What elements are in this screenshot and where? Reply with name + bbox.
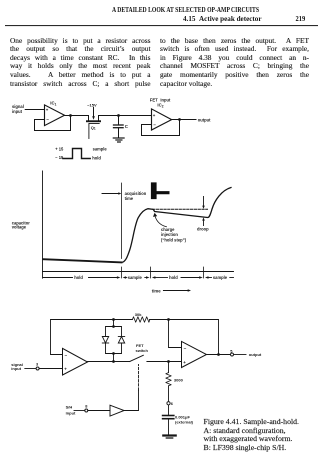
svg-text:+: + [46,107,49,112]
node: signal input label (bottom circuit) [11,362,23,371]
wire dashed gate control line [138,365,140,391]
svg-text:input: input [11,366,21,371]
svg-text:30k: 30k [135,312,142,317]
node junction 30k to A2 minus tap [167,318,170,321]
charge injection curved arrow [155,217,166,227]
svg-text:3000: 3000 [174,377,184,382]
capacitor 0.001uF external [163,415,174,417]
dimension line segments hold/sample/hold/sample [43,277,234,279]
node: capacitor voltage axis label [12,220,31,229]
svg-text:hold: hold [74,275,83,280]
svg-text:−15V: −15V [87,102,97,107]
svg-text:(“hold step”): (“hold step”) [161,238,187,243]
capacitor voltage waveform: baseline [43,259,122,262]
svg-text:switch: switch [136,348,149,353]
node: signal input label (top circuit) [12,104,24,114]
svg-text:output: output [198,117,211,122]
wire A2 output [207,354,231,356]
svg-text:S/H: S/H [66,405,73,410]
time axis line [43,271,234,273]
wire feedback rail (A2 out, over the top, to A1 minus) [150,320,219,355]
wire IC2 output [172,119,196,121]
terminal hold capacitor pin [167,402,170,405]
wire IC2 feedback loop [142,120,180,136]
svg-text:injection: injection [161,232,178,237]
interval tick marks [121,267,123,278]
svg-text:+: + [183,360,186,365]
wire A1 output [88,361,130,363]
ground below C [113,137,124,139]
node: hold/sample interval labels [74,275,227,280]
op-amp A2 [182,341,207,367]
svg-text:3: 3 [36,361,39,366]
svg-text:−: − [184,346,187,351]
terminal signal input [36,367,39,370]
acquisition-time boundary line [121,183,123,259]
svg-text:time: time [125,196,134,201]
left text column [10,37,151,88]
svg-text:output: output [249,352,262,357]
waveform y-axis [42,171,44,278]
node junction diode bottom to A1 output [112,360,115,363]
node junction IC1 output [69,114,72,117]
transistor Q1 (n-channel MOSFET switch) [88,116,90,121]
svg-text:IC1: IC1 [50,101,56,107]
op-amp IC2 (FET input) [150,97,171,108]
terminal S/H input [85,409,88,412]
wire signal input to IC1 + [25,109,44,111]
svg-text:input: input [12,109,23,114]
FET switch (switch arm) [130,355,144,361]
svg-text:hold: hold [169,275,178,280]
op-amp IC1 [45,105,65,126]
node: S/H input label [66,405,76,416]
wire S/H input to driver [74,410,85,412]
wire terminal to capacitor [168,405,170,415]
buffer U3 (switch driver) [110,405,124,416]
bold sample pulse glyph [151,182,170,199]
wire -15V to Q1 substrate with arrowhead [93,107,95,116]
capacitor voltage waveform: acquisition rise, hold step, droop, re-acquire [122,188,232,263]
node: acquisition time label [125,191,147,201]
resistor 30k [132,317,149,322]
wire to output label [234,354,247,356]
wire signal input [25,368,36,370]
svg-text:droop: droop [197,227,209,232]
wire hold node down to resistor [168,362,170,373]
wire IC1 feedback loop [35,116,71,131]
svg-text:6: 6 [171,401,174,406]
ground (bottom circuit) [163,434,175,436]
node junction hold-cap node [167,360,170,363]
svg-text:−: − [65,353,68,358]
svg-text:+ 15: + 15 [55,146,64,151]
wire diode branch stem bottom [113,354,115,362]
wire resistor to pin6 terminal [168,386,170,402]
resistor 3000 [166,373,171,386]
svg-text:input: input [66,410,76,415]
svg-text:sample: sample [213,275,228,280]
svg-text:sample: sample [93,147,108,152]
wire switch to A2 plus [147,361,182,363]
acquisition-time arrow [102,193,119,195]
svg-text:input: input [160,97,171,102]
svg-text:− 15: − 15 [55,155,64,160]
svg-text:−: − [46,117,49,122]
svg-text:Q1: Q1 [91,125,96,131]
node junction IC2 output [178,118,181,121]
figure caption [204,418,318,452]
node: FET switch label [136,343,149,353]
wire diode pair frame [106,327,122,354]
wire A2 minus from 30k node [169,320,182,348]
svg-text:−: − [153,122,156,127]
svg-text:+: + [64,366,67,371]
dashed no-droop level [153,208,208,210]
svg-text:voltage: voltage [12,225,27,230]
node junction diode pair bottom [112,352,115,355]
svg-text:+: + [153,113,156,118]
svg-text:8: 8 [85,404,88,409]
diode D1 (anode up) [102,337,108,344]
header title line [0,0,320,30]
svg-text:sample: sample [128,275,143,280]
wire diode branch stem top [113,320,115,327]
svg-text:IC2: IC2 [157,102,163,108]
svg-text:time: time [152,289,161,294]
capacitor C [118,116,120,125]
right text column [160,37,309,88]
node: charge injection label [161,227,187,242]
svg-text:(external): (external) [175,420,194,425]
wire capacitor to ground [168,420,170,435]
wire driver output up to switch [124,390,138,410]
wire IC1 output [65,115,89,117]
node junction diode top rail [112,318,115,321]
node junction at capacitor C [117,114,120,117]
node junction A2 output feedback tap [217,353,220,356]
svg-text:C: C [125,124,129,129]
sample/hold pulse annotation [55,146,107,160]
droop indicator arrows [203,197,205,206]
op-amp A1 [63,348,88,375]
wire Q1 drain to C node and IC2 [99,115,152,117]
node junction diode pair top [112,325,115,328]
diode D2 (anode down) [118,337,124,344]
svg-text:hold: hold [92,155,101,160]
terminal output [231,353,234,356]
